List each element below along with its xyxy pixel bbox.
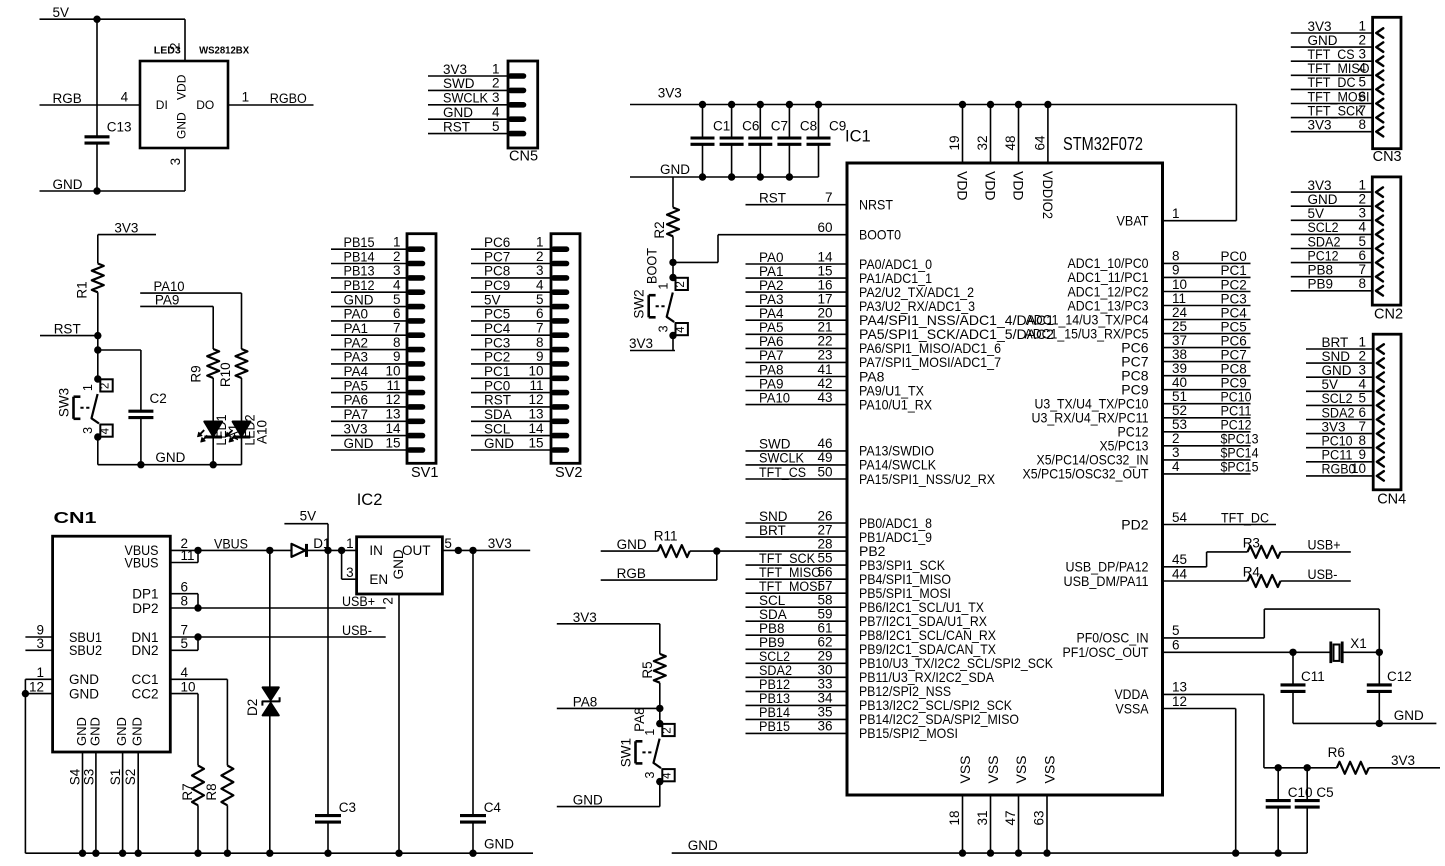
svg-text:A10: A10 xyxy=(255,420,270,444)
svg-text:3: 3 xyxy=(492,90,500,105)
svg-text:OUT: OUT xyxy=(402,543,431,558)
svg-text:USB_DM/PA11: USB_DM/PA11 xyxy=(1064,573,1149,589)
svg-text:GND: GND xyxy=(1394,708,1424,723)
svg-text:13: 13 xyxy=(528,407,543,422)
svg-text:33: 33 xyxy=(817,677,832,692)
svg-text:9: 9 xyxy=(1172,263,1180,278)
svg-text:55: 55 xyxy=(817,550,832,565)
svg-text:11: 11 xyxy=(386,378,400,393)
svg-text:S1: S1 xyxy=(108,769,123,786)
svg-text:VSS: VSS xyxy=(1013,755,1029,783)
svg-text:EN: EN xyxy=(369,572,388,587)
svg-text:38: 38 xyxy=(1172,347,1187,362)
svg-text:CC1: CC1 xyxy=(131,672,158,687)
svg-text:3V3: 3V3 xyxy=(488,536,512,551)
svg-text:PC7: PC7 xyxy=(1221,347,1247,362)
svg-text:SND: SND xyxy=(759,509,788,524)
svg-text:WS2812BX: WS2812BX xyxy=(199,45,249,57)
svg-text:11: 11 xyxy=(529,378,543,393)
svg-text:7: 7 xyxy=(1358,103,1366,118)
svg-text:37: 37 xyxy=(1172,333,1187,348)
svg-text:PC6: PC6 xyxy=(1221,333,1247,348)
svg-text:VSSA: VSSA xyxy=(1116,700,1150,716)
svg-text:27: 27 xyxy=(817,522,832,537)
svg-text:RST: RST xyxy=(443,119,470,134)
svg-text:NRST: NRST xyxy=(859,197,893,213)
svg-text:22: 22 xyxy=(817,334,832,349)
svg-text:VSS: VSS xyxy=(985,755,1001,783)
svg-text:GND: GND xyxy=(688,838,718,853)
svg-text:SDA2: SDA2 xyxy=(1308,234,1341,249)
svg-text:5: 5 xyxy=(181,636,189,651)
svg-text:GND: GND xyxy=(443,105,473,120)
svg-text:10: 10 xyxy=(528,364,543,379)
svg-text:PB15: PB15 xyxy=(344,235,375,250)
svg-text:18: 18 xyxy=(947,810,962,825)
svg-text:19: 19 xyxy=(947,135,962,150)
svg-text:USB+: USB+ xyxy=(1308,538,1341,553)
svg-text:2: 2 xyxy=(662,727,674,733)
svg-text:1: 1 xyxy=(242,90,250,105)
svg-text:11: 11 xyxy=(1172,291,1186,306)
svg-text:PC3: PC3 xyxy=(1221,291,1247,306)
svg-text:14: 14 xyxy=(528,421,544,436)
svg-text:R10: R10 xyxy=(218,362,233,387)
svg-text:4: 4 xyxy=(100,427,112,434)
svg-text:GND: GND xyxy=(484,436,514,451)
svg-text:2: 2 xyxy=(1358,348,1366,363)
svg-text:64: 64 xyxy=(1032,135,1047,151)
svg-text:13: 13 xyxy=(385,407,400,422)
svg-text:9: 9 xyxy=(1358,447,1366,462)
svg-text:2: 2 xyxy=(675,281,687,287)
svg-text:PF1/OSC_OUT: PF1/OSC_OUT xyxy=(1063,644,1149,660)
svg-text:10: 10 xyxy=(1172,277,1187,292)
svg-text:2: 2 xyxy=(536,249,544,264)
svg-text:GND: GND xyxy=(175,112,189,139)
svg-text:5V: 5V xyxy=(1322,377,1339,392)
svg-text:GND: GND xyxy=(87,717,102,746)
svg-text:LED3: LED3 xyxy=(154,45,181,57)
svg-text:C3: C3 xyxy=(339,800,356,815)
svg-text:SV2: SV2 xyxy=(555,465,582,481)
svg-text:10: 10 xyxy=(385,364,400,379)
svg-text:PA2: PA2 xyxy=(344,335,369,350)
svg-text:SCL: SCL xyxy=(759,593,786,608)
svg-text:PA10/U1_RX: PA10/U1_RX xyxy=(859,396,933,412)
svg-text:3V3: 3V3 xyxy=(1308,178,1332,193)
svg-text:1: 1 xyxy=(1358,177,1366,192)
svg-text:PC12: PC12 xyxy=(1308,248,1339,263)
svg-text:8: 8 xyxy=(393,335,401,350)
svg-text:R9: R9 xyxy=(189,365,204,382)
svg-text:5: 5 xyxy=(1358,391,1366,406)
svg-text:TFT_MISO: TFT_MISO xyxy=(759,565,821,580)
svg-text:5V: 5V xyxy=(1308,206,1325,221)
svg-text:PB8: PB8 xyxy=(1308,263,1334,278)
svg-text:8: 8 xyxy=(536,335,544,350)
svg-text:DI: DI xyxy=(156,98,168,112)
svg-text:6: 6 xyxy=(1358,405,1366,420)
svg-text:STM32F072: STM32F072 xyxy=(1063,133,1143,154)
svg-text:3V3: 3V3 xyxy=(114,220,138,235)
svg-text:PC7: PC7 xyxy=(484,249,510,264)
svg-text:TFT_DC: TFT_DC xyxy=(1308,75,1356,90)
svg-text:4: 4 xyxy=(121,90,129,105)
svg-text:7: 7 xyxy=(1358,419,1366,434)
svg-text:PC11: PC11 xyxy=(1322,448,1353,463)
svg-text:3V3: 3V3 xyxy=(1308,118,1332,133)
svg-text:SWCLK: SWCLK xyxy=(443,91,488,106)
svg-text:S2: S2 xyxy=(123,769,138,786)
svg-text:15: 15 xyxy=(817,263,832,278)
svg-text:C9: C9 xyxy=(829,119,846,134)
svg-text:6: 6 xyxy=(393,306,401,321)
svg-text:PD2: PD2 xyxy=(1121,516,1148,532)
svg-text:2: 2 xyxy=(1358,192,1366,207)
svg-text:VDDIO2: VDDIO2 xyxy=(1040,171,1056,219)
svg-text:8: 8 xyxy=(1358,433,1366,448)
svg-text:45: 45 xyxy=(1172,552,1187,567)
svg-text:3V3: 3V3 xyxy=(344,421,368,436)
svg-text:IC2: IC2 xyxy=(357,491,383,509)
svg-text:SW3: SW3 xyxy=(56,388,71,417)
svg-text:PA1: PA1 xyxy=(759,264,784,279)
svg-text:GND: GND xyxy=(391,549,406,579)
svg-text:DN2: DN2 xyxy=(131,643,158,658)
svg-text:PB15/SPI2_MOSI: PB15/SPI2_MOSI xyxy=(859,725,958,741)
svg-text:3: 3 xyxy=(1172,445,1180,460)
svg-text:3V3: 3V3 xyxy=(1308,19,1332,34)
svg-text:SDA2: SDA2 xyxy=(1322,405,1355,420)
svg-text:3V3: 3V3 xyxy=(1391,753,1415,768)
svg-text:3V3: 3V3 xyxy=(629,336,653,351)
svg-text:VDD: VDD xyxy=(175,74,189,100)
svg-text:44: 44 xyxy=(1172,566,1188,581)
svg-text:D2: D2 xyxy=(245,699,260,716)
svg-text:PA5: PA5 xyxy=(344,378,369,393)
svg-text:8: 8 xyxy=(1358,117,1366,132)
svg-text:R2: R2 xyxy=(652,221,667,238)
svg-text:PC4: PC4 xyxy=(484,321,511,336)
svg-text:5: 5 xyxy=(393,292,401,307)
svg-text:VDD: VDD xyxy=(983,171,999,201)
svg-text:C2: C2 xyxy=(150,391,167,406)
svg-text:C5: C5 xyxy=(1316,785,1333,800)
svg-text:62: 62 xyxy=(817,635,832,650)
svg-text:24: 24 xyxy=(1172,305,1188,320)
svg-text:PA6: PA6 xyxy=(759,334,784,349)
svg-text:3V3: 3V3 xyxy=(1322,419,1346,434)
svg-text:S4: S4 xyxy=(68,768,83,785)
svg-text:5: 5 xyxy=(1358,234,1366,249)
svg-text:VDD: VDD xyxy=(955,171,971,201)
svg-text:8: 8 xyxy=(1172,249,1180,264)
svg-text:BOOT0: BOOT0 xyxy=(859,227,901,243)
svg-text:40: 40 xyxy=(1172,375,1187,390)
svg-text:PA5: PA5 xyxy=(759,320,784,335)
svg-text:R7: R7 xyxy=(180,783,195,800)
svg-text:3: 3 xyxy=(168,158,183,166)
svg-text:3V3: 3V3 xyxy=(573,610,597,625)
svg-text:PA3: PA3 xyxy=(759,292,784,307)
svg-text:SCL2: SCL2 xyxy=(1322,391,1353,406)
svg-text:11: 11 xyxy=(181,548,195,563)
svg-text:PC9: PC9 xyxy=(1221,376,1247,391)
svg-text:5: 5 xyxy=(444,536,452,551)
svg-text:4: 4 xyxy=(536,278,544,293)
svg-text:6: 6 xyxy=(181,579,189,594)
svg-text:RST: RST xyxy=(759,191,786,206)
svg-text:5V: 5V xyxy=(300,509,317,524)
svg-text:SW2: SW2 xyxy=(632,289,647,318)
svg-text:32: 32 xyxy=(975,135,990,150)
svg-text:PA4: PA4 xyxy=(759,306,784,321)
svg-text:1: 1 xyxy=(393,235,401,250)
svg-text:51: 51 xyxy=(1172,389,1187,404)
svg-text:CN4: CN4 xyxy=(1377,492,1406,508)
svg-text:CN2: CN2 xyxy=(1374,306,1403,322)
svg-text:4: 4 xyxy=(675,326,687,333)
svg-text:7: 7 xyxy=(825,190,833,205)
svg-text:PA3: PA3 xyxy=(344,350,369,365)
svg-text:50: 50 xyxy=(817,464,832,479)
svg-text:PA0: PA0 xyxy=(759,250,784,265)
svg-text:30: 30 xyxy=(817,663,832,678)
svg-text:GND: GND xyxy=(484,837,514,852)
svg-text:2: 2 xyxy=(1358,32,1366,47)
svg-text:SV1: SV1 xyxy=(411,465,438,481)
svg-text:TFT_CS: TFT_CS xyxy=(759,465,806,480)
svg-text:5: 5 xyxy=(536,292,544,307)
svg-text:PA8: PA8 xyxy=(759,362,784,377)
svg-text:4: 4 xyxy=(393,278,401,293)
svg-text:X5/PC15/OSC32_OUT: X5/PC15/OSC32_OUT xyxy=(1023,466,1149,482)
svg-text:3: 3 xyxy=(536,263,544,278)
svg-text:PC8: PC8 xyxy=(484,264,510,279)
svg-text:2: 2 xyxy=(393,249,401,264)
svg-text:PB14: PB14 xyxy=(344,249,375,264)
svg-text:R4: R4 xyxy=(1243,564,1261,579)
svg-text:PB13: PB13 xyxy=(759,691,790,706)
svg-text:3: 3 xyxy=(1358,47,1366,62)
svg-text:9: 9 xyxy=(536,349,544,364)
svg-text:53: 53 xyxy=(1172,417,1187,432)
svg-text:15: 15 xyxy=(528,435,543,450)
svg-text:TFT_SCK: TFT_SCK xyxy=(1308,103,1364,118)
svg-text:4: 4 xyxy=(1358,377,1366,392)
svg-text:SDA: SDA xyxy=(484,407,512,422)
svg-text:PC12: PC12 xyxy=(1221,418,1252,433)
svg-text:USB-: USB- xyxy=(1308,567,1338,582)
svg-text:12: 12 xyxy=(528,392,543,407)
svg-text:PB9: PB9 xyxy=(1308,277,1334,292)
svg-text:VSS: VSS xyxy=(1042,755,1058,783)
svg-text:TFT_CS: TFT_CS xyxy=(1308,47,1355,62)
svg-text:PA4: PA4 xyxy=(344,364,369,379)
svg-text:16: 16 xyxy=(817,277,832,292)
svg-text:SWD: SWD xyxy=(443,76,475,91)
svg-text:PA9: PA9 xyxy=(759,376,784,391)
svg-text:PA0: PA0 xyxy=(344,307,369,322)
svg-text:SCL2: SCL2 xyxy=(759,649,790,664)
svg-text:52: 52 xyxy=(1172,403,1187,418)
svg-text:23: 23 xyxy=(817,348,832,363)
svg-text:5: 5 xyxy=(1172,623,1180,638)
svg-text:56: 56 xyxy=(817,565,832,580)
svg-text:GND: GND xyxy=(114,717,129,746)
svg-text:SCL: SCL xyxy=(484,421,511,436)
svg-text:BRT: BRT xyxy=(1322,335,1349,350)
svg-text:CN3: CN3 xyxy=(1373,149,1402,165)
svg-text:PC6: PC6 xyxy=(484,235,510,250)
svg-text:47: 47 xyxy=(1003,810,1018,825)
svg-text:SW1: SW1 xyxy=(618,738,633,767)
svg-text:RST: RST xyxy=(484,393,511,408)
svg-text:1: 1 xyxy=(1358,18,1366,33)
svg-text:6: 6 xyxy=(1172,638,1180,653)
svg-text:PB13: PB13 xyxy=(344,264,375,279)
svg-text:VDD: VDD xyxy=(1011,171,1027,201)
svg-text:1: 1 xyxy=(81,384,95,391)
svg-text:1: 1 xyxy=(492,61,500,76)
svg-text:DP1: DP1 xyxy=(132,587,158,602)
svg-text:54: 54 xyxy=(1172,510,1188,525)
svg-text:9: 9 xyxy=(393,349,401,364)
svg-text:GND: GND xyxy=(617,537,647,552)
svg-text:5: 5 xyxy=(492,119,500,134)
svg-text:60: 60 xyxy=(817,220,832,235)
svg-text:GND: GND xyxy=(69,686,99,701)
svg-text:GND: GND xyxy=(660,162,690,177)
svg-text:GND: GND xyxy=(344,436,374,451)
svg-text:SDA2: SDA2 xyxy=(759,663,792,678)
svg-text:X1: X1 xyxy=(1350,636,1367,651)
svg-text:5: 5 xyxy=(1358,75,1366,90)
svg-text:TFT_DC: TFT_DC xyxy=(1221,510,1269,525)
svg-text:4: 4 xyxy=(1358,220,1366,235)
svg-text:PC11: PC11 xyxy=(1221,404,1252,419)
svg-text:12: 12 xyxy=(1172,694,1187,709)
svg-text:10: 10 xyxy=(1351,461,1366,476)
svg-text:58: 58 xyxy=(817,593,832,608)
svg-text:PA1: PA1 xyxy=(344,321,369,336)
svg-text:8: 8 xyxy=(181,594,189,609)
svg-text:CC2: CC2 xyxy=(131,686,158,701)
svg-text:15: 15 xyxy=(385,435,400,450)
svg-text:R6: R6 xyxy=(1328,745,1345,760)
svg-text:3: 3 xyxy=(643,771,657,778)
svg-text:PC5: PC5 xyxy=(484,307,510,322)
svg-text:SCL2: SCL2 xyxy=(1308,220,1339,235)
svg-text:31: 31 xyxy=(975,810,990,825)
svg-text:PA7: PA7 xyxy=(759,348,784,363)
svg-text:13: 13 xyxy=(1172,680,1187,695)
svg-text:12: 12 xyxy=(385,392,400,407)
svg-text:TFT_MOSI: TFT_MOSI xyxy=(759,579,821,594)
svg-text:12: 12 xyxy=(29,679,44,694)
svg-text:PB8: PB8 xyxy=(759,621,785,636)
svg-text:1: 1 xyxy=(36,665,44,680)
svg-text:USB-: USB- xyxy=(342,623,372,638)
svg-text:46: 46 xyxy=(817,436,832,451)
svg-text:PB9: PB9 xyxy=(759,635,785,650)
svg-text:C1: C1 xyxy=(713,119,730,134)
svg-text:PC0: PC0 xyxy=(1221,249,1247,264)
svg-text:PC1: PC1 xyxy=(1221,263,1247,278)
svg-text:6: 6 xyxy=(1358,248,1366,263)
svg-text:3: 3 xyxy=(36,636,44,651)
svg-text:TFT_SCK: TFT_SCK xyxy=(759,551,815,566)
svg-text:PC2: PC2 xyxy=(1221,277,1247,292)
svg-text:PC1: PC1 xyxy=(484,364,510,379)
svg-text:GND: GND xyxy=(1322,363,1352,378)
svg-text:4: 4 xyxy=(1172,459,1180,474)
svg-text:PC10: PC10 xyxy=(1221,390,1252,405)
svg-text:1: 1 xyxy=(1358,334,1366,349)
svg-text:29: 29 xyxy=(817,649,832,664)
svg-text:C10: C10 xyxy=(1288,785,1313,800)
svg-text:25: 25 xyxy=(1172,319,1187,334)
svg-text:21: 21 xyxy=(817,320,832,335)
svg-text:GND: GND xyxy=(53,177,83,192)
svg-text:GND: GND xyxy=(1308,33,1338,48)
svg-text:39: 39 xyxy=(1172,361,1187,376)
svg-text:IC1: IC1 xyxy=(845,128,871,146)
svg-text:20: 20 xyxy=(817,306,832,321)
svg-text:1: 1 xyxy=(1172,206,1180,221)
svg-text:VBUS: VBUS xyxy=(214,536,248,551)
svg-text:USB+: USB+ xyxy=(342,594,375,609)
svg-text:GND: GND xyxy=(69,672,99,687)
svg-text:7: 7 xyxy=(1358,262,1366,277)
svg-text:43: 43 xyxy=(817,390,832,405)
svg-text:S3: S3 xyxy=(82,769,97,786)
svg-text:PC0: PC0 xyxy=(484,378,510,393)
svg-text:28: 28 xyxy=(817,536,832,551)
svg-text:PC2: PC2 xyxy=(484,350,510,365)
svg-text:PA15/SPI1_NSS/U2_RX: PA15/SPI1_NSS/U2_RX xyxy=(859,471,996,487)
svg-text:R11: R11 xyxy=(654,528,678,543)
svg-text:PA2: PA2 xyxy=(759,278,784,293)
svg-text:PA8: PA8 xyxy=(632,707,647,732)
svg-text:R3: R3 xyxy=(1243,535,1260,550)
svg-text:BOOT: BOOT xyxy=(644,248,659,284)
svg-text:SND: SND xyxy=(1322,349,1351,364)
svg-text:2: 2 xyxy=(1172,431,1180,446)
svg-text:42: 42 xyxy=(817,376,832,391)
svg-text:61: 61 xyxy=(817,621,832,636)
svg-text:R8: R8 xyxy=(204,783,219,800)
svg-text:2: 2 xyxy=(381,597,396,605)
svg-text:RGBO: RGBO xyxy=(270,91,307,106)
svg-text:PA7: PA7 xyxy=(344,407,369,422)
svg-text:CN5: CN5 xyxy=(509,149,538,165)
svg-text:PB14: PB14 xyxy=(759,705,790,720)
svg-text:41: 41 xyxy=(817,362,832,377)
svg-text:PC4: PC4 xyxy=(1221,305,1248,320)
svg-text:PA8: PA8 xyxy=(573,694,598,709)
svg-text:C13: C13 xyxy=(107,120,132,135)
svg-text:PB12: PB12 xyxy=(344,278,375,293)
svg-text:$PC15: $PC15 xyxy=(1221,460,1259,475)
svg-text:R1: R1 xyxy=(75,281,90,298)
svg-text:VBUS: VBUS xyxy=(125,555,159,570)
svg-text:2: 2 xyxy=(100,383,112,389)
svg-text:48: 48 xyxy=(1003,135,1018,150)
svg-text:7: 7 xyxy=(393,321,401,336)
svg-text:5V: 5V xyxy=(484,292,501,307)
